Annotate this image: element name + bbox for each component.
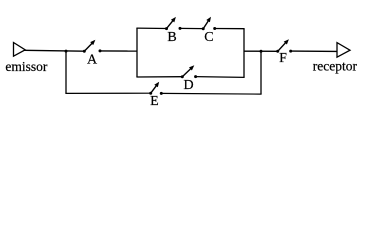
- node junction left (dot): [65, 50, 68, 53]
- wire left branch down: [65, 51, 67, 93]
- switch A: [83, 40, 102, 53]
- wire box right vertical: [243, 29, 245, 78]
- svg-text:C: C: [204, 30, 213, 45]
- wire switch A to box: [100, 50, 137, 52]
- svg-text:D: D: [183, 78, 193, 93]
- switch B: [165, 17, 182, 30]
- wire box left vertical: [136, 28, 138, 77]
- svg-text:E: E: [150, 94, 159, 109]
- wire bottom branch left segment: [65, 92, 150, 94]
- node junction right (dot): [260, 50, 263, 53]
- switch F: [276, 39, 292, 53]
- svg-text:B: B: [167, 30, 176, 45]
- wire bottom edge right segment: [196, 76, 245, 79]
- wire main after box: [244, 50, 278, 52]
- svg-text:A: A: [87, 52, 98, 67]
- switch D: [181, 65, 197, 78]
- wire switch F to receiver: [291, 50, 337, 52]
- wire top edge right segment: [215, 28, 245, 30]
- wire between B and C: [180, 27, 203, 29]
- wire bottom edge left segment: [136, 76, 182, 78]
- svg-text:emissor: emissor: [5, 59, 48, 74]
- switch E: [149, 82, 163, 95]
- wire top edge left segment: [136, 27, 166, 29]
- svg-text:F: F: [279, 51, 287, 66]
- receiver symbol (receptor buffer triangle): [337, 43, 350, 58]
- wire right branch down: [260, 51, 262, 94]
- wire bottom branch right segment: [161, 92, 261, 95]
- switch C: [202, 17, 217, 31]
- wire emitter to switch A: [25, 49, 85, 52]
- svg-text:receptor: receptor: [313, 59, 358, 74]
- emitter symbol (emissor buffer triangle): [14, 43, 26, 57]
